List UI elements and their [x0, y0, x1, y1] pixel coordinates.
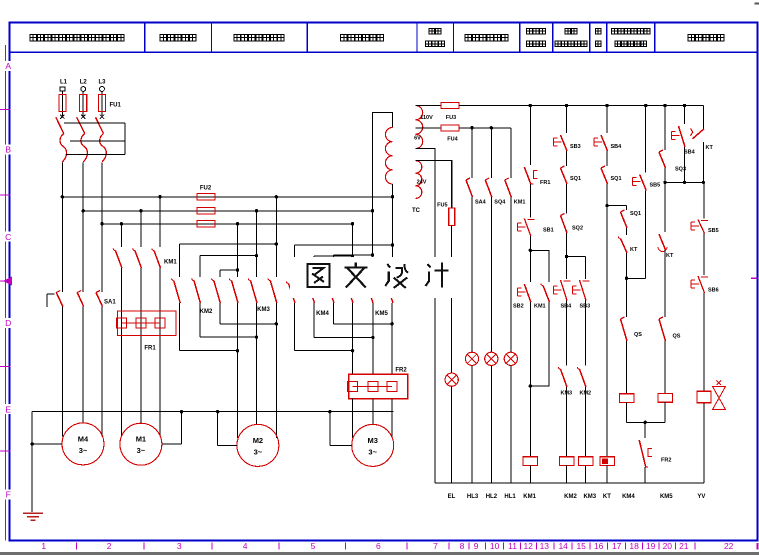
- svg-text:FR2: FR2: [395, 367, 407, 373]
- svg-text:FR1: FR1: [540, 180, 550, 186]
- svg-text:HL2: HL2: [486, 494, 498, 500]
- svg-text:6V: 6V: [414, 136, 421, 142]
- svg-text:110V: 110V: [420, 115, 433, 121]
- svg-text:D: D: [5, 318, 11, 328]
- svg-text:22: 22: [724, 541, 734, 551]
- svg-text:1: 1: [41, 541, 46, 551]
- svg-text:4: 4: [243, 541, 248, 551]
- svg-text:HL3: HL3: [467, 494, 479, 500]
- svg-text:SQ1: SQ1: [611, 176, 622, 182]
- svg-text:KM5: KM5: [660, 494, 673, 500]
- svg-text:KM1: KM1: [514, 200, 526, 206]
- svg-text:TC: TC: [412, 208, 421, 214]
- svg-text:20: 20: [663, 541, 673, 551]
- svg-text:3: 3: [177, 541, 182, 551]
- svg-text:FU1: FU1: [110, 103, 122, 109]
- svg-text:FU4: FU4: [447, 137, 458, 143]
- svg-text:KM5: KM5: [375, 311, 388, 317]
- svg-text:KM1: KM1: [164, 260, 177, 266]
- svg-text:EL: EL: [448, 494, 456, 500]
- svg-text:5: 5: [311, 541, 316, 551]
- svg-text:21: 21: [679, 541, 689, 551]
- svg-text:KT: KT: [706, 145, 714, 151]
- svg-text:L2: L2: [80, 80, 88, 86]
- svg-text:M4: M4: [78, 434, 89, 443]
- svg-text:KM3: KM3: [583, 494, 596, 500]
- svg-text:L3: L3: [98, 80, 106, 86]
- svg-text:SQ1: SQ1: [630, 211, 641, 217]
- svg-text:KM1: KM1: [534, 304, 546, 310]
- svg-text:YV: YV: [697, 494, 705, 500]
- svg-text:14: 14: [558, 541, 568, 551]
- svg-text:SB3: SB3: [580, 304, 591, 310]
- svg-text:SQ4: SQ4: [494, 200, 506, 206]
- svg-text:16: 16: [594, 541, 604, 551]
- svg-text:KM4: KM4: [622, 494, 635, 500]
- svg-text:A: A: [5, 61, 11, 71]
- svg-text:QS: QS: [673, 334, 681, 340]
- svg-text:M3: M3: [367, 436, 377, 445]
- svg-text:L1: L1: [60, 80, 68, 86]
- svg-text:KM1: KM1: [523, 494, 536, 500]
- svg-text:E: E: [5, 404, 11, 414]
- svg-text:19: 19: [646, 541, 656, 551]
- svg-text:11: 11: [508, 541, 517, 551]
- svg-text:FR1: FR1: [144, 346, 156, 352]
- svg-text:9: 9: [474, 541, 479, 551]
- svg-text:SA4: SA4: [475, 200, 487, 206]
- svg-text:QS: QS: [634, 332, 642, 338]
- svg-text:KM2: KM2: [564, 494, 577, 500]
- svg-text:10: 10: [490, 541, 500, 551]
- svg-text:SB5: SB5: [650, 183, 661, 189]
- svg-text:24V: 24V: [417, 180, 427, 186]
- svg-text:SB1: SB1: [543, 228, 554, 234]
- svg-text:13: 13: [540, 541, 550, 551]
- svg-text:SB4: SB4: [611, 144, 623, 150]
- svg-text:17: 17: [612, 541, 622, 551]
- svg-text:6: 6: [376, 541, 381, 551]
- svg-text:3~: 3~: [254, 447, 263, 456]
- svg-text:F: F: [6, 490, 11, 500]
- svg-text:B: B: [5, 145, 11, 155]
- svg-text:SA1: SA1: [104, 300, 116, 306]
- svg-text:3~: 3~: [79, 446, 88, 455]
- svg-text:12: 12: [523, 541, 533, 551]
- svg-text:FU5: FU5: [437, 203, 447, 209]
- svg-text:3~: 3~: [137, 446, 146, 455]
- svg-text:FU2: FU2: [200, 186, 212, 192]
- svg-text:SB3: SB3: [570, 144, 581, 150]
- svg-text:KM4: KM4: [316, 311, 329, 317]
- svg-text:7: 7: [433, 541, 438, 551]
- svg-text:SB2: SB2: [513, 304, 524, 310]
- svg-text:2: 2: [107, 541, 112, 551]
- svg-text:18: 18: [629, 541, 639, 551]
- svg-text:C: C: [5, 232, 11, 242]
- svg-text:SQ2: SQ2: [572, 226, 583, 232]
- svg-text:KM2: KM2: [200, 309, 213, 315]
- svg-text:15: 15: [576, 541, 586, 551]
- svg-text:KT: KT: [666, 253, 674, 259]
- svg-text:HL1: HL1: [504, 494, 516, 500]
- svg-text:KT: KT: [630, 247, 638, 253]
- svg-text:SB5: SB5: [708, 228, 719, 234]
- svg-text:3~: 3~: [368, 447, 377, 456]
- svg-text:8: 8: [460, 541, 465, 551]
- svg-text:SQ1: SQ1: [570, 176, 581, 182]
- svg-text:M1: M1: [136, 435, 146, 444]
- svg-text:KM3: KM3: [257, 307, 270, 313]
- svg-text:KT: KT: [603, 494, 611, 500]
- svg-text:SB4: SB4: [684, 150, 696, 156]
- svg-text:SB6: SB6: [708, 288, 719, 294]
- svg-text:M2: M2: [253, 436, 263, 445]
- svg-text:FU3: FU3: [446, 115, 456, 121]
- svg-text:FR2: FR2: [661, 458, 671, 464]
